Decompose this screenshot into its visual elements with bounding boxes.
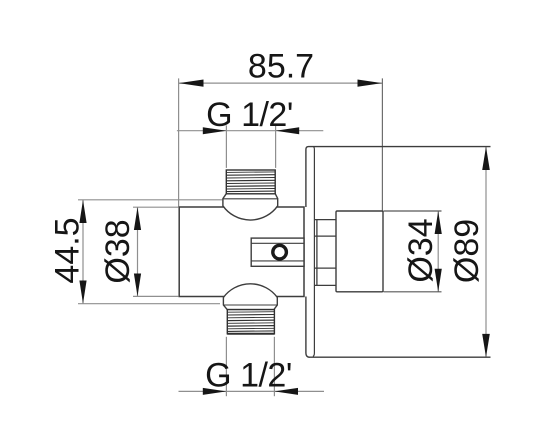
arrow G1/2 top left xyxy=(203,127,227,134)
hub bottom rim line xyxy=(223,304,277,306)
dim O34 ext bottom xyxy=(384,291,442,293)
dim G1/2 bottom line xyxy=(179,390,325,392)
hub top xyxy=(223,194,278,220)
dim O34 line xyxy=(437,211,439,292)
dim 85.7 ext right xyxy=(381,78,383,210)
arrow 85.7 left xyxy=(179,80,204,87)
arrow O38 up xyxy=(134,207,141,230)
dim G1/2 top ext right xyxy=(275,125,277,167)
arrow G1/2 top right xyxy=(276,127,300,134)
svg-text:44.5: 44.5 xyxy=(48,217,86,283)
svg-text:Ø89: Ø89 xyxy=(448,219,486,283)
collar top xyxy=(314,219,336,221)
dim 44.5 ext top xyxy=(78,199,222,201)
dim 85.7 line xyxy=(179,82,383,84)
arrow G1/2 bottom left xyxy=(203,388,227,395)
svg-text:Ø34: Ø34 xyxy=(402,218,440,282)
dim G1/2 bottom ext right xyxy=(273,337,275,396)
dim 44.5 line xyxy=(82,200,84,304)
dim O34 ext top xyxy=(384,210,442,212)
arrow O34 down xyxy=(435,269,442,292)
plate left face lower xyxy=(306,297,310,358)
plate left face upper xyxy=(306,147,309,207)
screw head circle xyxy=(273,245,287,259)
dim G1/2 bottom ext left xyxy=(225,337,227,396)
dim 85.7 ext left xyxy=(178,78,180,206)
dim O89 line xyxy=(485,147,487,358)
hub top rim line xyxy=(223,198,278,200)
svg-text:G 1/2': G 1/2' xyxy=(205,357,292,395)
dim G1/2 top ext left xyxy=(225,125,227,167)
dim 44.5 ext bottom xyxy=(78,303,220,305)
hub bottom xyxy=(223,284,277,310)
dim G1/2 top line xyxy=(177,130,323,132)
svg-text:Ø38: Ø38 xyxy=(99,219,137,283)
svg-text:85.7: 85.7 xyxy=(248,48,314,86)
knob O34 xyxy=(336,211,383,292)
thread bottom G1/2 xyxy=(227,310,274,334)
arrow O34 up xyxy=(435,211,442,234)
arrow 85.7 right xyxy=(358,80,383,87)
thread top G1/2 xyxy=(226,170,275,194)
plate front line xyxy=(313,147,314,357)
shaft top xyxy=(314,235,336,237)
svg-text:G 1/2': G 1/2' xyxy=(206,96,293,134)
arrow O38 down xyxy=(134,274,141,297)
screw housing xyxy=(251,238,304,266)
dim O38 line xyxy=(137,207,139,296)
plate top edge + O89 ext top xyxy=(309,146,491,148)
arrow O89 up xyxy=(482,147,490,170)
arrow 44.5 up xyxy=(79,200,86,223)
arrow O89 down xyxy=(482,334,490,357)
arrow 44.5 down xyxy=(79,281,86,304)
dim O38 ext top xyxy=(133,206,178,208)
arrow G1/2 bottom right xyxy=(274,388,298,395)
collar front edge xyxy=(316,220,318,286)
body O38 xyxy=(179,207,304,297)
shaft bottom xyxy=(314,267,336,269)
plate bottom edge + O89 ext bottom xyxy=(309,356,491,358)
collar bottom xyxy=(314,284,336,286)
dim O38 ext bottom xyxy=(133,295,178,297)
